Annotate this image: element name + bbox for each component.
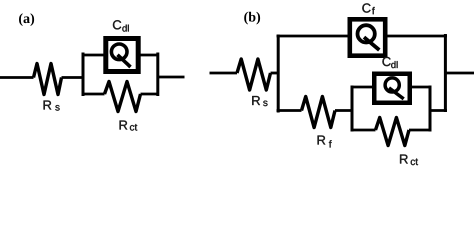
label Rct (a) [120, 121, 128, 130]
node A left rail (a) [82, 53, 85, 97]
wire: outer bottom branch left (b) [277, 109, 302, 112]
resistor R2 Rct (a) [105, 82, 141, 112]
wire: inner bottom branch right (b) [409, 129, 432, 132]
CPE Q2 letter (b) [358, 25, 375, 42]
wire: inner top branch left (b) [351, 86, 377, 89]
label Rct (b) [400, 155, 408, 164]
wire: inner bottom branch left (b) [351, 129, 376, 132]
wire: inner to outer rail stub (b) [430, 109, 447, 112]
wire: top branch left (a) [82, 54, 107, 57]
label Cdl (a) [113, 20, 121, 29]
wire: Rf to inner node D (b) [335, 109, 354, 112]
wire: output lead (a) [158, 76, 185, 79]
label Rs (b) [252, 96, 260, 105]
panel label (b) [244, 12, 260, 25]
CPE Q1 letter (a) [111, 44, 127, 60]
label Rf (b) [318, 136, 326, 145]
node D inner left rail (b) [351, 86, 354, 132]
wire: input lead (a) [0, 76, 34, 79]
wire: outer top branch right (b) [385, 35, 447, 38]
wire: top branch right (a) [140, 54, 160, 57]
label Rs (a) [44, 101, 52, 110]
CPE Q2 box Cf (b) [350, 19, 385, 55]
resistor R3 Rs (b) [237, 59, 271, 90]
wire: outer top branch left (b) [277, 35, 351, 38]
label Cf (b) [362, 3, 370, 12]
wire: input lead (b) [210, 72, 238, 75]
wire: output lead (b) [446, 72, 474, 75]
wire: inner top branch right (b) [408, 86, 432, 89]
panel label (a) [19, 13, 34, 26]
CPE Q3 letter (b) [385, 78, 399, 92]
CPE Q1 box (a) [106, 39, 138, 72]
node C outer left rail (b) [277, 35, 280, 113]
wire: Rs to node C (b) [271, 72, 280, 75]
wire: bottom branch left (a) [82, 93, 105, 96]
wire: Rs to node A (a) [62, 76, 85, 79]
label Cdl (b) [382, 57, 390, 66]
CPE Q3 box Cdl (b) [374, 74, 410, 103]
resistor R4 Rf (b) [302, 97, 336, 128]
resistor R1 Rs (a) [34, 64, 62, 95]
node F outer right rail (b) [444, 34, 447, 112]
resistor R5 Rct (b) [376, 118, 410, 146]
node B right rail (a) [156, 53, 159, 97]
node E inner right rail (b) [429, 86, 432, 132]
wire: bottom branch right (a) [141, 93, 160, 96]
